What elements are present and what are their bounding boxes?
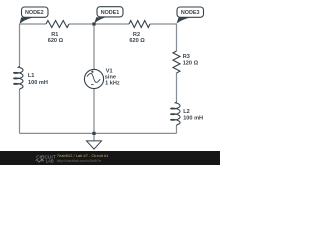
node NODE1 callout bbox=[94, 7, 123, 24]
ground bbox=[93, 133, 95, 141]
footer logo wave + LAB bbox=[36, 158, 54, 163]
resistor R1 bbox=[46, 21, 69, 28]
wire right branch middle bbox=[176, 73, 178, 101]
svg-text:L2: L2 bbox=[183, 109, 190, 115]
svg-text:620 Ω: 620 Ω bbox=[48, 38, 64, 44]
svg-text:http://circuitlab.com/c/2m5r7e: http://circuitlab.com/c/2m5r7e bbox=[57, 159, 101, 163]
svg-text:620 Ω: 620 Ω bbox=[129, 38, 145, 44]
node NODE2 callout bbox=[19, 7, 48, 24]
node junction top (NODE1) bbox=[92, 22, 95, 25]
inductor L2 bbox=[171, 101, 180, 125]
svg-text:LAB: LAB bbox=[46, 158, 54, 163]
svg-text:NODE2: NODE2 bbox=[25, 10, 44, 16]
wire left branch upper bbox=[19, 24, 21, 66]
resistor R2 bbox=[129, 21, 150, 28]
footer bar bbox=[0, 151, 220, 165]
svg-text:NODE1: NODE1 bbox=[101, 10, 120, 16]
svg-text:R3: R3 bbox=[183, 54, 190, 60]
wire middle branch upper bbox=[93, 24, 95, 70]
svg-text:100 mH: 100 mH bbox=[28, 80, 48, 86]
wire top from R1 to R2 bbox=[69, 23, 129, 25]
inductor L1 bbox=[14, 66, 23, 90]
svg-text:7eab512 / Lab #7 - Circuit #1: 7eab512 / Lab #7 - Circuit #1 bbox=[57, 153, 109, 158]
svg-text:100 mH: 100 mH bbox=[183, 115, 203, 121]
wire top from NODE2 to R1 bbox=[20, 23, 47, 25]
wire right branch upper bbox=[176, 24, 178, 51]
voltage source V1 bbox=[84, 69, 103, 88]
wire bottom bbox=[20, 132, 177, 134]
node NODE3 callout bbox=[176, 7, 203, 24]
wire left branch lower bbox=[19, 90, 21, 134]
resistor R3 bbox=[173, 51, 180, 73]
node junction bottom (ground) bbox=[92, 132, 95, 135]
wire middle branch lower bbox=[93, 89, 95, 134]
wire top from R2 to NODE3 bbox=[150, 23, 177, 25]
wire right branch lower bbox=[176, 126, 178, 134]
svg-text:1 kHz: 1 kHz bbox=[105, 81, 120, 87]
svg-text:NODE3: NODE3 bbox=[181, 10, 200, 16]
svg-text:120 Ω: 120 Ω bbox=[183, 60, 199, 66]
svg-text:L1: L1 bbox=[28, 73, 35, 79]
